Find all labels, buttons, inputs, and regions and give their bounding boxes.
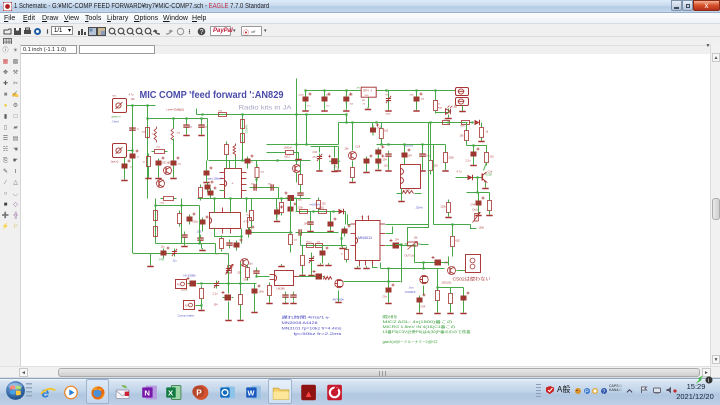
wire [229, 178, 231, 187]
wire [448, 257, 450, 266]
resistor R36b [250, 208, 254, 224]
ground [337, 169, 339, 171]
svg-text:+2200: +2200 [298, 95, 305, 97]
wire vertical 199 [199, 206, 201, 244]
svg-text:220k: 220k [441, 206, 447, 209]
junction [227, 282, 229, 284]
capacitor C51 [386, 284, 395, 296]
ground [276, 219, 278, 221]
wire rail 283 [199, 283, 257, 285]
ground [206, 180, 208, 182]
wire [300, 185, 302, 190]
capacitor C27 [414, 93, 423, 105]
svg-text:▲: ▲ [304, 389, 313, 400]
resistor R11 [220, 236, 224, 252]
resistor R36d [299, 172, 303, 188]
svg-text:J 3mef: J 3mef [112, 121, 120, 124]
wire [481, 123, 483, 127]
resistor R35 [248, 215, 252, 231]
wire [452, 247, 454, 257]
wire [380, 263, 382, 269]
wire [352, 178, 354, 181]
svg-text:C94: C94 [421, 306, 426, 309]
wire [437, 301, 439, 312]
wire vertical 228 [228, 254, 230, 284]
wire vertical 155 [155, 199, 157, 244]
junction [436, 286, 438, 288]
wire [310, 228, 312, 230]
wire [404, 158, 406, 169]
svg-text:50k: 50k [238, 272, 243, 275]
svg-text:10k: 10k [414, 237, 419, 240]
svg-text:Comp meter: Comp meter [178, 314, 195, 318]
wire [397, 193, 403, 195]
svg-text:P: P [196, 389, 202, 398]
junction [241, 159, 243, 161]
junction [471, 121, 473, 123]
wire [240, 284, 242, 294]
ground [462, 109, 464, 111]
wire [466, 141, 468, 146]
wire [235, 157, 237, 169]
meter M2 [184, 301, 195, 310]
wire rail 281 [344, 281, 401, 283]
wire vertical 296 upper [296, 79, 298, 115]
wire [319, 162, 321, 169]
capacitor C46e [246, 226, 255, 238]
wire [404, 145, 406, 152]
wire [247, 164, 249, 169]
capacitor C7 [227, 169, 236, 181]
junction [345, 113, 347, 115]
wire rail 198 [198, 198, 311, 200]
wire vertical 207 [207, 119, 209, 161]
junction [295, 159, 297, 161]
wire [310, 212, 312, 219]
wire [345, 212, 347, 225]
capacitor C25 102 [343, 93, 352, 105]
capacitor C3 [198, 122, 204, 131]
resistor R4 [147, 154, 151, 170]
junction [229, 197, 231, 199]
wire vertical 296 lower [296, 115, 298, 165]
wire [388, 91, 390, 96]
junction [255, 275, 257, 277]
diode D2 [475, 120, 480, 126]
wire [302, 246, 304, 256]
capacitor C34 220u [419, 151, 425, 160]
corner status icons [694, 375, 705, 384]
junction [280, 197, 282, 199]
wire [319, 147, 321, 153]
capacitor C16 10u [161, 247, 170, 259]
svg-text:104x: 104x [259, 291, 265, 294]
wire vertical 290 [290, 199, 292, 235]
junction [154, 204, 156, 206]
op-amp IC6 LM386 [270, 271, 299, 286]
wire [416, 102, 418, 109]
ground [473, 163, 475, 165]
wire [124, 158, 126, 163]
svg-text:104a: 104a [326, 95, 332, 97]
wire rail 245 [301, 245, 347, 247]
capacitor C49 [282, 292, 288, 301]
potentiometer TIME 50k [226, 264, 234, 275]
resistor R46 [345, 247, 349, 263]
svg-text:2.2u: 2.2u [213, 293, 218, 296]
capacitor C13 [226, 240, 232, 249]
junction [403, 143, 405, 145]
capacitor C26 RC [386, 96, 391, 104]
wire [256, 161, 258, 168]
wire [251, 199, 253, 211]
capacitor C56 104 [252, 285, 261, 297]
svg-text:J2: J2 [137, 157, 140, 159]
resistor R15 [178, 211, 182, 227]
wire vertical 388 [388, 269, 390, 287]
junction top rail [323, 89, 325, 91]
wire [311, 264, 313, 274]
junction [248, 231, 250, 233]
wire [450, 304, 452, 312]
ground [328, 263, 330, 265]
svg-text:R27a: R27a [307, 242, 313, 244]
svg-text:2SC1815: 2SC1815 [162, 162, 173, 165]
svg-text:MIC2 AGL: 4x(1500)番この: MIC2 AGL: 4x(1500)番この [383, 319, 454, 324]
capacitor C54 [226, 266, 231, 274]
junction [422, 267, 424, 269]
svg-text:i: i [708, 378, 709, 384]
wire [150, 254, 152, 265]
wire rail 287 [438, 287, 464, 289]
capacitor C42 104 [307, 219, 313, 228]
svg-text:C2: C2 [231, 266, 235, 269]
junction top rail [415, 89, 417, 91]
wire [254, 295, 256, 311]
ground [338, 300, 340, 302]
svg-text:104: 104 [304, 223, 309, 226]
wire [352, 123, 354, 151]
wire [484, 163, 487, 171]
wire [481, 138, 483, 140]
capacitor C32b [375, 146, 384, 158]
wire rail 146 [311, 146, 339, 148]
capacitor C41 [461, 292, 470, 304]
svg-text:J-on: J-on [409, 287, 414, 290]
resistor R23 1k [480, 125, 484, 141]
wire rail 211 [296, 211, 346, 213]
transistor Q5 2SD [482, 172, 486, 182]
wire [305, 232, 339, 234]
ground [202, 248, 204, 250]
canvas [21, 54, 710, 366]
wire [381, 139, 383, 145]
svg-text:J-FB: J-FB [159, 259, 165, 262]
svg-text:4.7u: 4.7u [129, 94, 134, 97]
capacitor C52 [187, 277, 199, 287]
ground [298, 157, 300, 159]
svg-text:104: 104 [383, 159, 388, 162]
wire [436, 109, 449, 113]
wire [202, 226, 204, 232]
resistor R45 [313, 244, 326, 248]
ground [450, 311, 452, 313]
wire [228, 302, 230, 319]
resistor R37 [246, 265, 250, 281]
junction [387, 280, 389, 282]
capacitor C10 [208, 187, 217, 199]
op-amp IC1 BA4558 [220, 169, 247, 199]
ground [485, 186, 487, 188]
svg-text:50u: 50u [249, 263, 254, 266]
resistor R20 220k [444, 150, 448, 166]
resistor R22a [440, 121, 453, 125]
ground [186, 133, 188, 135]
resistor R10 [199, 185, 203, 201]
ground [448, 215, 450, 217]
junction [146, 104, 148, 106]
wire [381, 123, 383, 129]
ground [334, 169, 336, 171]
wire [422, 145, 424, 151]
potentiometer VR1 100k [473, 212, 481, 223]
resistor R31 [317, 198, 321, 212]
wire [462, 106, 464, 110]
ground [148, 176, 150, 178]
svg-text:10k: 10k [131, 98, 136, 101]
wire [300, 161, 302, 175]
svg-text:2.2u: 2.2u [466, 160, 471, 163]
wire [290, 245, 292, 253]
svg-text:調整の様 相: 調整の様 相 [383, 314, 397, 319]
ground [422, 169, 424, 171]
wire [240, 305, 242, 319]
wire [463, 302, 465, 312]
wire [296, 199, 298, 212]
ground [404, 169, 406, 171]
ground [388, 169, 390, 171]
wire vertical 401 [401, 245, 403, 283]
wire [305, 91, 307, 96]
title bar [0, 0, 720, 13]
capacitor C33b [375, 155, 384, 167]
junction [200, 304, 202, 306]
resistor R47 [301, 253, 305, 269]
ground [269, 301, 271, 303]
wire [401, 189, 403, 200]
wire rail 253 [134, 253, 229, 255]
resistor R19 [351, 165, 355, 181]
wire [396, 244, 403, 246]
junction [295, 113, 297, 115]
svg-text:20k: 20k [345, 148, 350, 151]
ground [330, 229, 332, 231]
connector X1 MIC jack [113, 99, 127, 113]
wire [201, 306, 203, 309]
junction [185, 117, 187, 119]
wire [452, 225, 454, 237]
svg-text:1k: 1k [341, 254, 344, 256]
wire vertical 181 [181, 199, 183, 244]
wire [338, 291, 340, 301]
resistor R32 220k [447, 200, 451, 216]
resistor R18 [379, 126, 383, 142]
op-amp IC5 pins [401, 169, 404, 184]
wire [489, 193, 491, 200]
wire [201, 244, 203, 249]
toolbar row 2 [0, 37, 720, 46]
svg-text:W: W [248, 389, 255, 398]
wire rail 205 [156, 205, 200, 207]
capacitor C37 [342, 225, 351, 237]
wire rail 177 [456, 177, 482, 179]
resistor R1 [146, 125, 150, 141]
wire [229, 161, 231, 172]
junction [131, 104, 133, 106]
wire [352, 161, 354, 166]
junction [295, 143, 297, 145]
wire rail 243 [156, 243, 216, 245]
svg-text:M: M [177, 283, 180, 287]
wire [386, 224, 429, 226]
capacitor C55 [222, 291, 234, 301]
wire [201, 119, 203, 122]
wire [241, 229, 243, 244]
junction [387, 143, 389, 145]
resistor R36c [289, 232, 293, 248]
svg-text:104: 104 [408, 155, 413, 158]
svg-text:JP11: JP11 [457, 101, 463, 103]
capacitor C44 [288, 203, 297, 215]
svg-text:6x12: 6x12 [285, 156, 291, 159]
ground [150, 264, 152, 266]
transistor Q9 4N7000 [335, 279, 344, 287]
wire [347, 215, 349, 225]
svg-text:220u: 220u [193, 221, 199, 224]
resistor R28 4022 [316, 210, 330, 214]
diode D3 [468, 175, 473, 181]
junction [241, 113, 243, 115]
start orb [5, 380, 26, 401]
wire [388, 293, 390, 302]
wire [173, 146, 175, 160]
wire [448, 115, 450, 117]
svg-text:+: + [232, 182, 234, 186]
wire [276, 215, 278, 220]
junction [276, 159, 278, 161]
ground [366, 266, 368, 268]
svg-text:γ=100kHz: γ=100kHz [310, 204, 322, 207]
regulator IC4 78L05 [361, 87, 376, 97]
wire [471, 225, 477, 229]
svg-text:C29: C29 [356, 146, 361, 149]
wire [256, 178, 258, 188]
wire feedback 1 [408, 123, 429, 245]
ground [352, 180, 354, 182]
junction [305, 113, 307, 115]
wire [448, 200, 450, 203]
ground [310, 229, 312, 231]
ground [240, 318, 242, 320]
wire rail 114 [197, 114, 347, 116]
connector X2 jack [113, 144, 127, 158]
svg-text:MN3101 fp=10kz fr=4.4ms: MN3101 fp=10kz fr=4.4ms [282, 327, 342, 331]
capacitor C58 [309, 256, 314, 264]
svg-text:Limit=-35dB相当: Limit=-35dB相当 [167, 108, 185, 112]
svg-text:R25B: R25B [486, 174, 493, 177]
wire rail 145 [467, 145, 487, 147]
svg-text:P: P [585, 389, 589, 395]
svg-text:N: N [144, 389, 150, 398]
wire rail 144 [267, 144, 339, 146]
wire [300, 233, 302, 246]
wire [196, 109, 198, 115]
svg-text:78L: 78L [362, 100, 366, 102]
wire [402, 245, 415, 247]
junction [240, 235, 242, 237]
wire rail 232 [250, 232, 293, 234]
connector JP2 pinhead [456, 98, 469, 106]
ground [342, 246, 344, 248]
resistor R21 103 [429, 158, 433, 174]
wire [423, 286, 425, 296]
capacitor C2 [183, 122, 189, 131]
resistor R2 47k [171, 127, 174, 143]
svg-text:J=100kHz: J=100kHz [405, 291, 417, 294]
capacitor C39 [432, 256, 444, 266]
svg-text:MICRG 1.5mV IN 4(15(C1番この: MICRG 1.5mV IN 4(15(C1番この [383, 324, 457, 329]
svg-text:C3a: C3a [488, 171, 493, 174]
wire rail 1444 [377, 144, 446, 146]
resistor R14 [154, 224, 158, 240]
svg-text:Radio kits in JA: Radio kits in JA [239, 105, 293, 112]
wire [386, 227, 393, 234]
wire [324, 91, 326, 96]
wire [201, 131, 203, 134]
svg-text:J04: J04 [350, 104, 354, 106]
svg-text:LM386: LM386 [277, 287, 286, 291]
wire [306, 115, 308, 145]
svg-text:gain3(n0)0ードルーナミー2点K口: gain3(n0)0ードルーナミー2点K口 [383, 339, 438, 344]
wire input vertical [147, 106, 149, 199]
ground [448, 116, 450, 118]
ground [302, 273, 304, 275]
junction [476, 191, 478, 193]
junction top rail [345, 89, 347, 91]
resistor R40 1k [434, 98, 438, 114]
capacitor C48 [313, 270, 325, 280]
svg-text:1k: 1k [143, 162, 146, 164]
svg-text:27u: 27u [313, 156, 318, 159]
wire [215, 244, 217, 254]
transistor Q1 2SC1815 [164, 167, 172, 175]
svg-text:29: 29 [361, 217, 364, 219]
ground [388, 301, 390, 303]
ground [445, 169, 447, 171]
IC3 MN3011 BBD [351, 216, 386, 266]
wire rail 192 [467, 192, 490, 194]
capacitor C6 [204, 167, 213, 179]
wire [388, 160, 390, 169]
wire [305, 102, 307, 109]
svg-text:104x: 104x [298, 200, 304, 202]
capacitor C15 [187, 213, 196, 225]
junction [375, 121, 377, 123]
svg-text:%1k: %1k [152, 134, 157, 136]
wire rail 122 [339, 122, 468, 124]
junction [472, 144, 474, 146]
resistor R41 [268, 283, 272, 299]
